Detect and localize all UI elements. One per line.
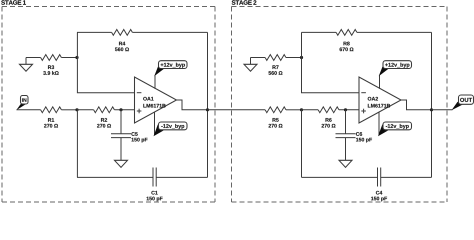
resistor R4 <box>112 30 133 52</box>
bottom rail right of C4 <box>381 176 432 178</box>
resistor R7 <box>265 55 286 75</box>
feedback rail to R8 <box>302 31 337 33</box>
resistor R3 <box>41 55 62 75</box>
resistor R8 <box>336 30 357 52</box>
wire R3 to node C <box>61 57 77 59</box>
wire R4 to feedback vertical <box>132 31 207 33</box>
-12v_byp power flag (OA2) <box>378 112 412 136</box>
wire ground to R7 <box>251 57 266 59</box>
ground (R7 left) <box>244 58 257 72</box>
ground (C6) <box>339 160 352 167</box>
stage 2 dashed boundary box <box>232 7 448 203</box>
capacitor C1 <box>147 168 163 202</box>
node D junction dot <box>300 108 303 111</box>
resistor R5 <box>265 107 286 128</box>
resistor R2 <box>94 107 115 128</box>
stage 1 title <box>1 0 26 4</box>
wire R5 to node D <box>286 109 302 111</box>
resistor R6 <box>318 107 339 128</box>
bottom rail left of C4 <box>302 176 378 178</box>
capacitor C4 <box>371 168 387 202</box>
op-amp OA2 LM6171B <box>359 77 401 123</box>
feedback node dot OA1 output <box>206 108 209 111</box>
wire R8 to feedback vertical <box>357 31 432 33</box>
wire R1 to node A <box>61 109 77 111</box>
capacitor C5 <box>111 110 147 161</box>
op-amp OA2 output wire with step down <box>401 100 432 110</box>
op-amp OA1 LM6171B <box>135 77 177 123</box>
wire node A to R2 <box>77 109 94 111</box>
node C junction dot <box>75 56 78 59</box>
feedback vertical wire stage 2 <box>431 32 433 177</box>
wire node D to R6 <box>302 109 319 111</box>
wire node D down to bottom rail stage 2 <box>301 110 303 178</box>
wire R2 to op-amp + input <box>114 109 134 111</box>
bottom rail right of C1 <box>156 176 207 178</box>
+12v_byp power flag (OA1) <box>154 61 187 89</box>
node F junction dot <box>300 56 303 59</box>
op-amp OA1 output wire with step down <box>177 100 208 110</box>
stage 2 title <box>232 0 257 4</box>
node A junction dot <box>75 108 78 111</box>
wire ground to R3 <box>26 57 41 59</box>
wire IN to R1 <box>17 109 41 111</box>
wire stage2 output to OUT <box>432 109 453 111</box>
feedback node dot OA2 output <box>430 108 433 111</box>
-12v_byp power flag (OA1) <box>154 112 188 136</box>
wire stage1 output to stage2 R5 <box>208 109 266 111</box>
ground (C5) <box>115 160 128 167</box>
IN port flag <box>16 96 28 111</box>
stage 1 dashed boundary box <box>2 7 215 203</box>
node B junction dot <box>119 108 122 111</box>
wire R7 to node F <box>286 57 302 59</box>
capacitor C6 <box>336 110 372 161</box>
wire vertical node C up to R4 rail and down to inverting input <box>77 32 134 92</box>
+12v_byp power flag (OA2) <box>379 61 412 89</box>
bottom rail left of C1 <box>77 176 153 178</box>
feedback rail to R4 <box>77 31 112 33</box>
wire node A down to bottom rail <box>76 110 78 178</box>
node E junction dot <box>344 108 347 111</box>
ground (R3 left) <box>20 58 33 72</box>
feedback vertical wire <box>207 32 209 177</box>
wire R6 to op-amp + input <box>339 109 359 111</box>
wire vertical node F up to R8 rail and down to inverting input <box>302 32 360 92</box>
resistor R1 <box>41 107 62 128</box>
OUT port flag <box>452 95 474 110</box>
